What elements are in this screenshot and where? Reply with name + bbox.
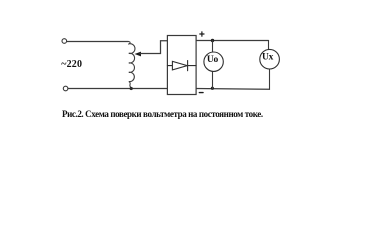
junction: coil bottom to bottom wire [130, 87, 133, 90]
diode symbol inside VD1 [167, 61, 196, 71]
terminal X2 (bottom input) [63, 86, 68, 91]
wire bottom-right bus from VD1 to Ux branch [196, 88, 269, 91]
svg-text:Ux: Ux [262, 53, 274, 63]
wire bottom from X2 to rectifier box [68, 88, 167, 90]
autotransformer T1 winding [128, 42, 135, 89]
voltmeter Ux [260, 49, 280, 69]
label ~220 [61, 59, 82, 70]
junction: U0 bottom node [211, 86, 214, 90]
svg-text:Uo: Uo [207, 55, 219, 65]
svg-text:~220: ~220 [61, 59, 82, 70]
voltmeter U0 leads [212, 41, 214, 89]
label Ux [262, 53, 274, 63]
label + (positive output) [200, 32, 204, 36]
label U0 [207, 55, 219, 65]
terminal X1 (top input) [62, 39, 67, 44]
rectifier VD1 (bridge box) [167, 36, 196, 95]
wire top-left from X1 to coil [67, 41, 129, 43]
label - (negative output) [199, 92, 203, 94]
voltmeter Ux leads [269, 41, 270, 90]
wire top-right bus from VD1 to Ux branch [196, 40, 268, 42]
voltmeter U0 [204, 52, 223, 71]
caption: figure title [62, 109, 263, 119]
wiper arrow of autotransformer [135, 41, 168, 57]
junction: U0 top node [211, 39, 214, 42]
